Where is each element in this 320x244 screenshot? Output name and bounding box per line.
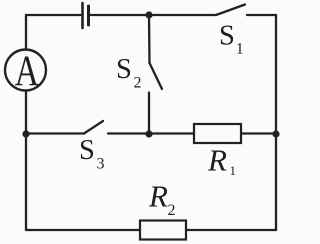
- wire right side: [275, 15, 277, 230]
- ammeter A1 circle: [5, 50, 46, 91]
- wire bottom left: [26, 229, 140, 231]
- wire left lower: [25, 91, 27, 231]
- wire S2 upper: [148, 15, 151, 63]
- switch S2 blade: [150, 63, 163, 89]
- svg-text:S: S: [219, 21, 235, 52]
- svg-text:2: 2: [134, 75, 142, 92]
- svg-text:S: S: [79, 135, 95, 166]
- switch S3 blade: [84, 121, 103, 134]
- svg-text:A: A: [15, 48, 39, 95]
- svg-text:1: 1: [230, 163, 237, 178]
- wire bottom right: [186, 229, 276, 231]
- svg-text:2: 2: [168, 202, 176, 219]
- wire middle left: [26, 132, 84, 134]
- svg-text:R: R: [207, 143, 227, 178]
- svg-text:S: S: [116, 54, 132, 85]
- wire top-left to battery: [26, 14, 81, 16]
- node middle junction: [145, 130, 152, 137]
- svg-text:1: 1: [236, 41, 244, 58]
- wire S2 lower: [148, 93, 150, 134]
- wire battery to S1 pivot: [90, 14, 216, 16]
- node right junction: [272, 130, 279, 137]
- wire S3 to node: [108, 132, 149, 134]
- resistor R2 box: [140, 221, 186, 240]
- battery cell plates: [81, 3, 84, 28]
- wire left upper: [25, 15, 27, 50]
- node top junction: [145, 11, 152, 18]
- resistor R1 box: [194, 124, 241, 143]
- wire S1 to top-right corner: [247, 14, 276, 16]
- wire node to R1: [149, 132, 194, 134]
- wire R1 to right: [241, 132, 276, 134]
- switch S1 blade: [216, 5, 245, 16]
- svg-text:R: R: [148, 179, 168, 214]
- node left junction: [22, 130, 29, 137]
- svg-text:3: 3: [97, 156, 105, 173]
